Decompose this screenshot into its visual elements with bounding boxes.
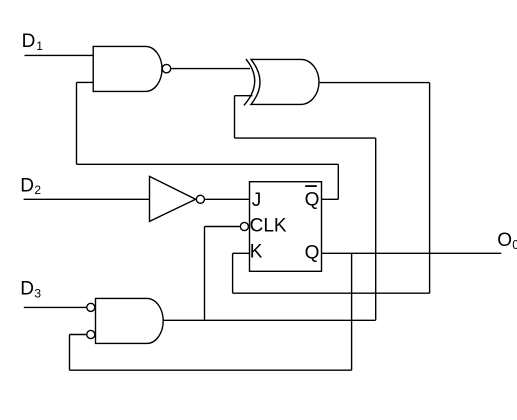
wire NAND output to XOR input 1 [171, 68, 250, 70]
svg-text:J: J [252, 190, 261, 211]
wire D1 to NAND input 1 [25, 54, 94, 56]
svg-text:O: O [497, 230, 512, 251]
wire horizontal XOR output to K [233, 292, 430, 294]
node D2 label [20, 175, 41, 197]
inverter U3 [150, 176, 196, 221]
svg-text:1: 1 [36, 39, 43, 53]
pin label Qbar overbar [305, 185, 317, 187]
wire vertical up to K input [232, 253, 234, 293]
wire U4 output [164, 319, 376, 321]
wire vertical Qbar feedback left [76, 82, 78, 164]
wire Qbar feedback stub into NAND input 2 [77, 81, 94, 83]
wire vertical CLK from U4 output line [204, 227, 206, 321]
node D1 label [22, 31, 44, 53]
wire CLK input [205, 226, 240, 228]
wire D2 to inverter input [24, 198, 150, 200]
xor gate U2 input arc [244, 59, 255, 105]
wire Q output to O0 [322, 252, 502, 254]
wire vertical riser from U4 output [375, 138, 377, 320]
wire horizontal Q feedback bottom [70, 369, 352, 371]
wire inverter output to J input [205, 198, 249, 200]
U1 output bubble [162, 64, 171, 73]
wire D3 to U4 input 1 [24, 306, 87, 308]
wire XOR output [319, 82, 430, 84]
node O0 label [497, 230, 517, 252]
and gate U4 [96, 298, 164, 343]
wire Qbar output stub [322, 198, 339, 200]
nand gate U1 [93, 46, 162, 91]
wire U4 input 2 stub [70, 334, 87, 336]
wire vertical XOR input 2 [234, 96, 236, 138]
svg-text:2: 2 [34, 183, 41, 197]
xor gate U2 body [251, 59, 319, 104]
svg-text:0: 0 [512, 238, 517, 252]
U3 output bubble [196, 195, 204, 203]
wire vertical Q feedback down [351, 253, 353, 370]
svg-text:Q: Q [305, 189, 320, 210]
wire horizontal from U4 output riser to XOR input 2 [235, 137, 376, 139]
svg-text:D: D [22, 31, 36, 52]
wire horizontal Qbar feedback [77, 163, 339, 165]
U5 CLK input bubble [240, 222, 248, 230]
svg-text:D: D [20, 278, 34, 299]
svg-text:3: 3 [34, 287, 41, 301]
wire vertical up to U4 input 2 [69, 335, 71, 371]
svg-text:D: D [20, 175, 34, 196]
flip-flop U5 box [250, 182, 322, 272]
svg-text:Q: Q [305, 242, 320, 263]
wire vertical XOR output down right side [429, 83, 431, 294]
node D3 label [20, 278, 41, 300]
wire vertical down to Qbar output stub [337, 164, 339, 199]
svg-text:CLK: CLK [250, 216, 287, 237]
wire XOR input 2 stub [235, 95, 253, 97]
svg-text:K: K [250, 242, 263, 263]
U4 input 1 bubble [87, 303, 95, 311]
wire K input stub [233, 252, 250, 254]
U4 input 2 bubble [87, 330, 95, 338]
